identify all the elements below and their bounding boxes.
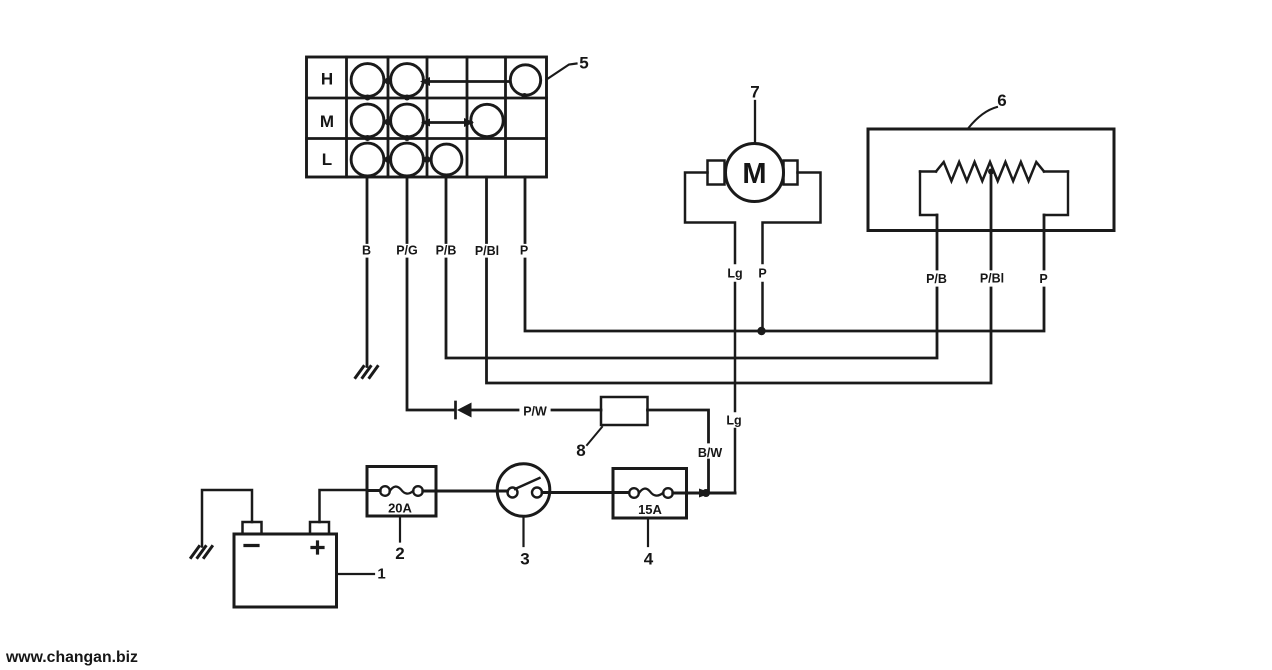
svg-text:3: 3 [520,550,529,569]
svg-text:P/B: P/B [436,244,457,258]
svg-text:P/G: P/G [396,244,418,258]
svg-text:1: 1 [377,566,385,583]
svg-text:H: H [321,70,333,89]
svg-text:M: M [742,158,766,190]
svg-text:15A: 15A [638,502,662,517]
svg-text:2: 2 [395,544,404,563]
svg-text:P: P [758,267,766,281]
svg-text:7: 7 [750,83,759,102]
svg-text:Lg: Lg [727,267,742,281]
svg-text:Lg: Lg [726,414,741,428]
svg-text:P: P [520,244,528,258]
svg-text:4: 4 [644,550,654,569]
svg-text:P/Bl: P/Bl [475,244,499,258]
svg-text:P: P [1039,272,1047,286]
svg-text:8: 8 [576,441,585,460]
svg-text:20A: 20A [388,501,412,516]
svg-text:B/W: B/W [698,446,723,460]
svg-text:P/B: P/B [926,272,947,286]
svg-text:5: 5 [579,53,588,72]
svg-text:L: L [322,150,332,169]
svg-text:www.changan.biz: www.changan.biz [5,649,138,666]
svg-text:P/W: P/W [523,405,547,419]
svg-text:6: 6 [997,91,1006,110]
svg-text:P/Bl: P/Bl [980,272,1004,286]
svg-text:M: M [320,112,334,131]
svg-text:B: B [362,244,371,258]
